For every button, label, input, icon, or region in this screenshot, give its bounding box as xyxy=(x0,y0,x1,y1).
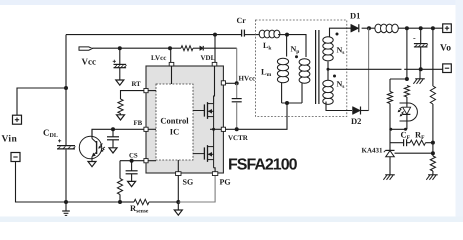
node junction divider tap xyxy=(431,26,435,30)
capacitor CS filter xyxy=(126,161,138,182)
label Vo xyxy=(440,44,451,54)
resistor divider lower xyxy=(430,156,435,171)
node junction LVcc xyxy=(168,46,172,50)
node junction FB xyxy=(111,127,115,131)
pin VDL stub xyxy=(212,62,217,66)
wire LED anode xyxy=(406,97,408,107)
diode bootstrap D xyxy=(200,46,203,51)
node junction cathode left xyxy=(389,128,392,131)
capacitor CDL DC-link xyxy=(57,139,75,202)
wire Lk to primary node xyxy=(278,34,287,36)
pin SG stub xyxy=(176,172,181,176)
wire VCTR internal xyxy=(210,128,221,130)
wire to bootstrap resistor xyxy=(170,47,181,49)
node junction center tap xyxy=(327,68,330,71)
wire center tap xyxy=(327,62,329,81)
terminal Vo+ box xyxy=(443,24,452,33)
svg-text:PG: PG xyxy=(220,178,231,187)
wire LED feed drop xyxy=(406,28,408,79)
wire SG drop xyxy=(177,160,179,202)
opto light arrows (into transistor) xyxy=(98,144,105,152)
capacitor Vcc bypass (electrolytic) xyxy=(113,60,127,80)
wire Ns upper top lead xyxy=(330,28,352,37)
pin RT stub xyxy=(144,89,148,93)
connector Vcc plug xyxy=(79,47,92,50)
label Control IC xyxy=(160,116,189,137)
svg-text:Ns: Ns xyxy=(337,80,345,91)
wire resistor to diode xyxy=(193,47,200,49)
node junction divider Rf xyxy=(431,141,435,145)
terminal Vin- box xyxy=(11,153,20,162)
label FB xyxy=(134,120,143,127)
winding Np primary xyxy=(299,59,310,84)
node junction CS cap xyxy=(130,159,134,163)
wire HVcc feed drop xyxy=(236,48,238,83)
ground SG arrow xyxy=(174,202,182,215)
node junction return cap xyxy=(419,67,423,71)
wire top-left corner vertical xyxy=(65,35,67,146)
label Rsense xyxy=(130,203,149,215)
svg-text:Lm: Lm xyxy=(261,67,272,79)
label SG xyxy=(183,178,194,187)
terminal Vo- box xyxy=(443,64,452,73)
capacitor Cr resonant xyxy=(241,30,259,37)
node junction Vin+ tap xyxy=(64,86,68,90)
capacitor Cf xyxy=(404,139,407,146)
node junction CS resistor bottom xyxy=(118,200,122,204)
wire KA431 cathode xyxy=(389,129,391,150)
svg-text:D2: D2 xyxy=(351,116,361,126)
label CDL xyxy=(43,128,58,140)
svg-text:Vo: Vo xyxy=(440,44,451,54)
wire VCTR to transformer xyxy=(226,103,288,129)
ground divider xyxy=(426,175,437,180)
diode D1 xyxy=(351,24,359,32)
svg-text:CS: CS xyxy=(129,152,138,159)
svg-text:RT: RT xyxy=(132,81,142,88)
inductor output choke xyxy=(375,24,398,33)
svg-text:SG: SG xyxy=(183,178,194,187)
svg-text:CF: CF xyxy=(401,129,411,141)
ground FB cap arrow xyxy=(109,148,117,153)
wire bottom rail left xyxy=(66,201,120,203)
wire Vcc cap drop xyxy=(119,48,121,64)
label Lm xyxy=(261,67,272,79)
wire CS lead xyxy=(120,160,156,162)
label Cr xyxy=(237,16,247,25)
label PG xyxy=(220,178,231,187)
label Ns lower xyxy=(337,80,345,91)
node winding dot Np xyxy=(295,55,298,58)
node junction VDL tap xyxy=(213,33,217,37)
svg-text:FB: FB xyxy=(134,120,143,127)
opto transistor circle xyxy=(79,136,101,158)
wire choke to output xyxy=(398,27,442,29)
wire CS resistor to rail xyxy=(119,195,121,203)
wire FB to opto collector xyxy=(92,129,113,138)
label VDL xyxy=(201,54,216,62)
pin FB stub xyxy=(144,127,148,131)
node junction output cap tap xyxy=(419,26,423,30)
pin CS stub xyxy=(144,159,148,163)
node junction VCTR HVcc-cap xyxy=(235,127,239,131)
svg-text:Control: Control xyxy=(160,116,189,126)
opto LED light arrows xyxy=(398,107,404,116)
resistor bias parallel xyxy=(387,92,392,104)
svg-text:LVcc: LVcc xyxy=(151,54,166,62)
node junction VCTR internal xyxy=(212,128,215,131)
resistor LED series xyxy=(404,86,409,98)
wire bias to cathode xyxy=(389,104,391,130)
ground primary earth xyxy=(62,202,70,215)
label LVcc xyxy=(151,54,166,62)
terminal Vin+ box xyxy=(13,115,22,124)
label CS xyxy=(129,152,138,159)
wire Np top lead xyxy=(287,35,306,57)
ground output return xyxy=(413,69,424,84)
wire DC link top rail xyxy=(66,34,241,36)
svg-text:-: - xyxy=(413,34,416,43)
wire Np bottom lead xyxy=(301,83,303,103)
node junction LED feed elbow xyxy=(405,77,409,81)
wire primary bottom connect xyxy=(282,102,302,104)
svg-text:VDL: VDL xyxy=(201,54,216,62)
shunt regulator KA431 xyxy=(384,150,395,174)
ground RT arrow xyxy=(117,114,125,121)
resistor RT xyxy=(118,99,123,114)
svg-text:Np: Np xyxy=(291,45,300,56)
wire PG return xyxy=(178,176,215,202)
svg-text:D1: D1 xyxy=(350,11,360,21)
wire Vin+ lead xyxy=(17,88,66,115)
label KA431 xyxy=(362,146,384,154)
wire Rsense to SG xyxy=(149,201,178,203)
label D2 xyxy=(351,116,361,126)
node junction primary bottom xyxy=(285,101,289,105)
svg-text:KA431: KA431 xyxy=(362,146,384,154)
resistor bootstrap R xyxy=(181,46,193,51)
transformer dashed box xyxy=(256,20,347,117)
wire FB lead xyxy=(113,128,156,130)
resistor Rf xyxy=(410,140,426,145)
ground CS cap arrow xyxy=(128,181,136,186)
node junction left bus bottom xyxy=(64,200,68,204)
label Cf xyxy=(401,129,411,141)
ground KA431 xyxy=(383,175,394,180)
wire Rf to divider xyxy=(426,142,433,144)
transistor Q2 low-side MOSFET xyxy=(193,129,215,172)
svg-text:FSFA2100: FSFA2100 xyxy=(228,157,298,174)
wire LED cathode connect xyxy=(390,128,407,130)
wire secondary return xyxy=(328,68,443,70)
wire diode to HVcc corner xyxy=(204,47,237,49)
wire rail to Rsense xyxy=(120,201,134,203)
svg-text:VCTR: VCTR xyxy=(228,134,249,142)
wire RT lead xyxy=(121,91,157,99)
resistor CS lowpass xyxy=(117,179,122,195)
svg-text:CDL: CDL xyxy=(43,128,58,140)
svg-text:Ns: Ns xyxy=(337,46,345,57)
wire Cf tap xyxy=(390,142,403,144)
transformer core lines xyxy=(316,30,319,104)
svg-text:HVcc: HVcc xyxy=(239,75,256,83)
label Vcc xyxy=(82,57,97,67)
control IC dashed box xyxy=(156,84,193,160)
node winding dot Ns lower xyxy=(333,75,336,78)
label D1 xyxy=(350,11,360,21)
wire Lm bottom lead xyxy=(281,83,283,104)
node junction HVcc xyxy=(235,81,239,85)
label VCTR xyxy=(228,134,249,142)
wire bias elbow xyxy=(390,79,407,92)
node junction LED feed tap xyxy=(405,26,409,30)
svg-text:Vcc: Vcc xyxy=(82,57,97,67)
wire Lm top lead xyxy=(286,35,288,57)
wire divider upper xyxy=(432,28,434,86)
capacitor FB filter xyxy=(107,129,119,148)
capacitor HVcc bootstrap xyxy=(232,83,242,129)
wire divider mid xyxy=(432,104,434,156)
capacitor output electrolytic xyxy=(413,28,428,69)
svg-text:Vin: Vin xyxy=(2,135,18,145)
node junction Vcc cap xyxy=(118,46,122,50)
ground opto emitter arrow xyxy=(88,162,96,167)
inductor Lm magnetizing xyxy=(277,58,288,83)
node junction divider ref xyxy=(431,151,435,155)
label Rf xyxy=(415,129,425,141)
wire Cf to Rf xyxy=(407,142,410,144)
wire divider bottom xyxy=(432,171,434,175)
label Np xyxy=(291,45,300,56)
opto LED arc xyxy=(400,103,418,121)
opto transistor body xyxy=(92,129,97,161)
node winding dot Ns upper xyxy=(336,33,339,36)
winding Ns lower secondary xyxy=(323,80,333,104)
ground Vcc cap xyxy=(116,80,124,85)
wire D1 to choke xyxy=(362,27,375,29)
diode D2 xyxy=(353,107,369,115)
resistor divider upper xyxy=(430,86,435,104)
wire Vcc to LVcc node xyxy=(92,47,170,49)
label Vin xyxy=(2,135,18,145)
node junction SG xyxy=(176,200,180,204)
node junction primary top xyxy=(285,33,289,37)
winding Ns upper secondary xyxy=(323,37,333,61)
transistor Q1 high-side MOSFET xyxy=(193,102,214,129)
label FSFA2100 xyxy=(228,157,298,174)
svg-text:Lk: Lk xyxy=(263,41,272,52)
wire LVcc pin drop xyxy=(170,48,173,84)
label Lk xyxy=(263,41,272,52)
label HVcc xyxy=(239,75,256,83)
pin HVcc stub xyxy=(221,81,225,85)
node junction D1 cathode xyxy=(367,26,371,30)
pin PG stub xyxy=(212,172,217,176)
wire Ns lower bottom lead xyxy=(326,102,352,111)
node junction cathode right xyxy=(404,128,407,131)
label Ns upper xyxy=(337,46,345,57)
resistor Rsense xyxy=(134,199,149,204)
pin LVcc stub xyxy=(169,62,174,66)
wire VDL to high-side drain xyxy=(213,66,216,104)
label RT xyxy=(132,81,142,88)
wire Vin- lead xyxy=(16,162,67,203)
wire KA431 ref xyxy=(395,152,433,154)
svg-text:Cr: Cr xyxy=(237,16,247,25)
diode opto LED xyxy=(403,107,411,129)
wire HVcc lead xyxy=(226,82,237,84)
svg-text:IC: IC xyxy=(170,127,179,137)
svg-text:Rsense: Rsense xyxy=(130,203,149,215)
wire VDL drop xyxy=(214,35,216,63)
wire D2 riser xyxy=(368,28,370,110)
pin VCTR stub xyxy=(221,127,225,131)
IC block FSFA2100 body xyxy=(146,66,223,173)
wire CS elbow down xyxy=(119,161,121,179)
svg-text:RF: RF xyxy=(415,129,425,141)
inductor Lk leakage xyxy=(259,30,280,38)
